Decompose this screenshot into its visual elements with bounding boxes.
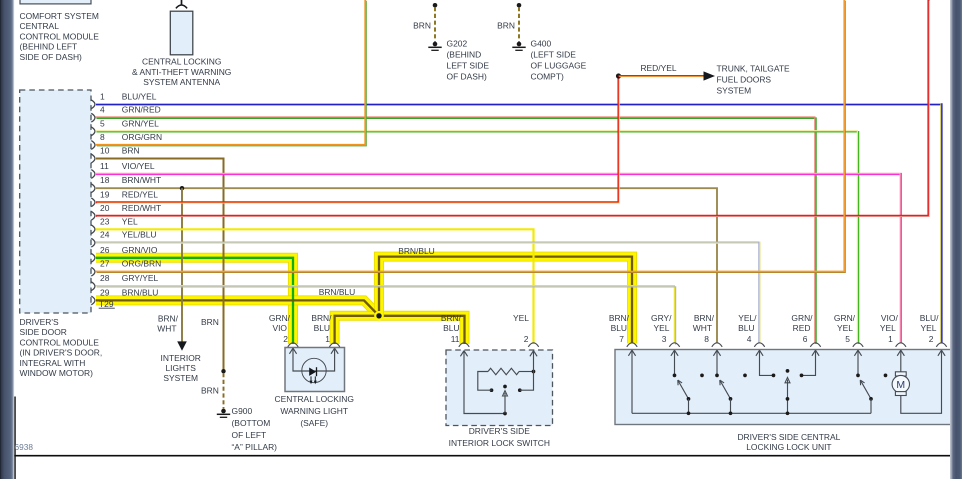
wire BRN dashed lead to G900	[223, 373, 225, 409]
svg-text:SIDE OF DASH): SIDE OF DASH)	[20, 52, 83, 62]
node center switch left contact	[772, 374, 776, 378]
svg-text:YEL: YEL	[921, 323, 937, 333]
motor M lead from pin 1	[900, 350, 902, 372]
pin 20 socket of T29	[91, 211, 95, 220]
svg-text:RED: RED	[793, 323, 811, 333]
svg-text:COMPT): COMPT)	[531, 71, 564, 81]
resistor R (lock switch)	[488, 368, 519, 374]
svg-text:WHT: WHT	[157, 323, 176, 333]
node lock unit switch B contact (pin 8)	[715, 374, 719, 378]
svg-text:M: M	[896, 379, 905, 391]
svg-text:SYSTEM ANTENNA: SYSTEM ANTENNA	[143, 77, 220, 87]
svg-text:YEL: YEL	[513, 313, 529, 323]
wire BRN/BLU pin 29 highlight band (main run with jog)	[96, 300, 465, 344]
wire BRN/BLU pin 29 brown core	[96, 300, 465, 344]
svg-text:BLU: BLU	[738, 323, 754, 333]
svg-text:COMFORT SYSTEM: COMFORT SYSTEM	[20, 11, 99, 21]
svg-text:BRN/BLU: BRN/BLU	[319, 287, 356, 297]
svg-text:CONTROL MODULE: CONTROL MODULE	[20, 337, 100, 347]
lock unit pin 1 connector hook	[896, 343, 906, 347]
wire ORG/BRN pin 27 exits top of page	[96, 0, 845, 272]
svg-text:BRN/: BRN/	[441, 313, 462, 323]
svg-text:WARNING LIGHT: WARNING LIGHT	[280, 406, 348, 416]
svg-text:20: 20	[100, 203, 110, 213]
lock unit pin 6 entry arrow	[812, 350, 816, 356]
svg-text:LIGHTS: LIGHTS	[165, 363, 196, 373]
wire GRN/RED pin 4 to lock unit pin 6	[96, 118, 816, 344]
svg-text:(SAFE): (SAFE)	[300, 418, 328, 428]
node lock unit switch C contact (pin 5)	[856, 374, 860, 378]
driver's side door control module (dashed box)	[20, 90, 91, 313]
svg-text:G900: G900	[232, 406, 253, 416]
svg-text:BRN/: BRN/	[694, 313, 715, 323]
lock unit pin 5 lead	[857, 350, 859, 375]
lock switch pin 2 connector hook	[528, 343, 538, 347]
switch A pivot to bus	[688, 399, 690, 413]
svg-text:6: 6	[803, 334, 808, 344]
svg-text:(BEHIND LEFT: (BEHIND LEFT	[20, 42, 78, 52]
lock unit switch A blade	[678, 380, 689, 399]
svg-text:11: 11	[451, 334, 460, 344]
svg-text:26: 26	[100, 245, 110, 255]
svg-text:BRN: BRN	[497, 20, 515, 30]
lock unit pin 7 entry arrow	[628, 350, 632, 356]
svg-text:LEFT SIDE: LEFT SIDE	[447, 60, 490, 70]
svg-text:23: 23	[100, 216, 110, 226]
pin 29 socket of T29	[91, 296, 95, 305]
svg-text:CENTRAL LOCKING: CENTRAL LOCKING	[142, 57, 221, 67]
svg-text:RED/WHT: RED/WHT	[122, 203, 161, 213]
svg-text:RED/YEL: RED/YEL	[122, 189, 158, 199]
wire left contact to resistor left lead	[478, 372, 492, 391]
node lock switch right contact	[518, 388, 522, 392]
svg-text:WINDOW MOTOR): WINDOW MOTOR)	[20, 368, 94, 378]
warning light pin 2 entry arrow and lead	[289, 348, 293, 354]
lock unit pin 7 connector hook	[627, 343, 637, 347]
lock unit switch B blade	[720, 380, 731, 399]
wire GRY/YEL pin 28 to lock unit pin 3 (yellow/grey pair)	[95, 286, 674, 344]
svg-text:GRY/: GRY/	[651, 313, 672, 323]
svg-text:INTEGRAL WITH: INTEGRAL WITH	[20, 358, 86, 368]
node center switch right contact	[800, 374, 804, 378]
wire ORG/GRN pin 8 exits top of page	[96, 0, 366, 145]
pin 4 socket of T29	[91, 113, 95, 122]
svg-text:4: 4	[100, 105, 105, 115]
svg-text:1: 1	[325, 334, 330, 344]
LED diode triangle and bar	[309, 368, 316, 376]
driver's side interior lock switch box (dashed)	[446, 350, 553, 426]
svg-text:DRIVER'S: DRIVER'S	[20, 317, 59, 327]
svg-text:GRN/VIO: GRN/VIO	[122, 245, 158, 255]
motor M (lock actuator)	[895, 372, 906, 376]
svg-text:YEL: YEL	[837, 323, 853, 333]
svg-text:GRY/YEL: GRY/YEL	[122, 273, 159, 283]
svg-text:6938: 6938	[15, 442, 34, 452]
switch C pivot to bus end	[870, 399, 872, 413]
lock unit pin 3 entry arrow	[671, 350, 675, 356]
lock unit common bus	[632, 412, 871, 414]
svg-text:YEL: YEL	[122, 216, 138, 226]
svg-text:ORG/GRN: ORG/GRN	[122, 132, 162, 142]
svg-text:2: 2	[929, 334, 934, 344]
pin 23 socket of T29	[91, 225, 95, 234]
resistor right lead to pin 2	[519, 371, 534, 373]
lock unit pin 6 connector hook	[810, 343, 820, 347]
pin 24 socket of T29	[91, 238, 95, 247]
pin 11 socket of T29	[91, 170, 95, 179]
node free contact right of pin 8	[743, 374, 747, 378]
svg-text:TRUNK, TAILGATE: TRUNK, TAILGATE	[717, 63, 791, 73]
svg-text:1: 1	[888, 334, 893, 344]
LED emission arrows	[310, 376, 312, 381]
lock unit pin 8 connector hook	[712, 343, 722, 347]
pin 26 socket of T29	[91, 253, 95, 262]
svg-text:BRN: BRN	[122, 146, 140, 156]
svg-text:BRN/BLU: BRN/BLU	[122, 287, 159, 297]
lock unit pin 4 lead to center switch left contact	[760, 350, 774, 375]
svg-text:G400: G400	[531, 38, 552, 48]
svg-text:18: 18	[100, 175, 110, 185]
wire BRN/BLU brown core branch to warning light pin 1	[335, 316, 379, 344]
warning light LED lamp circle	[302, 358, 326, 382]
svg-text:BRN/: BRN/	[311, 313, 332, 323]
wire BRN/BLU highlight band branch to warning light pin 1	[335, 316, 379, 344]
svg-text:2: 2	[283, 334, 288, 344]
lock unit pin 2 entry arrow	[938, 350, 942, 356]
svg-text:BLU: BLU	[611, 323, 627, 333]
node bus junction (center)	[786, 411, 790, 415]
motor return wire to pin 2	[901, 350, 942, 413]
wire BRN pin 10 down to ground G900	[96, 159, 224, 372]
svg-text:ORG/BRN: ORG/BRN	[122, 259, 161, 269]
lock unit pin 8 lead	[716, 350, 718, 375]
svg-text:BRN/: BRN/	[609, 313, 630, 323]
central locking & anti-theft warning system antenna symbol	[181, 0, 183, 5]
node RED/YEL junction	[616, 73, 621, 78]
pin 8 socket of T29	[91, 141, 95, 150]
node bus junction (switch A)	[687, 411, 691, 415]
lock unit pin 8 entry arrow	[713, 350, 717, 356]
central locking warning light box	[285, 348, 345, 392]
svg-text:28: 28	[100, 273, 110, 283]
wire BRN dashed lead to G202	[434, 7, 436, 42]
svg-text:4: 4	[747, 334, 752, 344]
pin 5 socket of T29	[91, 127, 95, 136]
svg-text:(IN DRIVER'S DOOR,: (IN DRIVER'S DOOR,	[20, 348, 103, 358]
wire YEL/BLU pin 24 to lock unit pin 4	[96, 243, 760, 344]
svg-text:3: 3	[662, 334, 667, 344]
svg-text:OF DASH): OF DASH)	[447, 71, 488, 81]
svg-text:CONTROL MODULE: CONTROL MODULE	[20, 31, 100, 41]
node free contact left of pin 8	[700, 374, 704, 378]
lock unit pin 5 entry arrow	[854, 350, 858, 356]
wire YEL pin 23 to interior lock switch pin 2	[96, 229, 534, 344]
node BRN/WHT branch junction	[180, 186, 184, 190]
node lock switch common	[503, 412, 507, 416]
node BRN junction above G900 dashed lead	[221, 369, 225, 373]
svg-text:LOCKING LOCK UNIT: LOCKING LOCK UNIT	[746, 442, 831, 452]
wire GRN/YEL pin 5 to lock unit pin 5	[96, 132, 858, 344]
lock unit pin 7 lead to bus	[631, 350, 633, 413]
lock unit pin 5 connector hook	[853, 343, 863, 347]
svg-text:BLU/YEL: BLU/YEL	[122, 91, 157, 101]
svg-text:DRIVER'S SIDE: DRIVER'S SIDE	[469, 426, 531, 436]
svg-text:(BOTTOM: (BOTTOM	[232, 418, 271, 428]
wire right contact to pin 2 lead	[520, 351, 534, 391]
wire BRN/WHT branch down to interior lights system	[181, 188, 183, 342]
svg-text:BLU/: BLU/	[920, 313, 939, 323]
svg-text:YEL: YEL	[654, 323, 670, 333]
interior lights system off-page arrow	[177, 341, 187, 350]
svg-text:BRN: BRN	[413, 20, 431, 30]
svg-text:GRN/: GRN/	[791, 313, 813, 323]
svg-text:FUEL DOORS: FUEL DOORS	[717, 74, 772, 84]
ground G400 symbol	[517, 42, 522, 47]
node center switch upper contact	[786, 369, 790, 373]
node switch C pivot	[869, 397, 873, 401]
wire RED/WHT pin 20 exits top of page	[96, 0, 929, 216]
svg-text:29: 29	[100, 287, 110, 297]
svg-text:BRN/WHT: BRN/WHT	[122, 175, 161, 185]
ground G900 symbol	[221, 409, 226, 414]
svg-text:BLU: BLU	[314, 323, 330, 333]
warning light pin 1 entry arrow	[331, 348, 335, 354]
svg-text:GRN/RED: GRN/RED	[122, 105, 161, 115]
svg-text:24: 24	[100, 230, 110, 240]
warning light pin 2 connector hook	[288, 343, 298, 347]
svg-text:RED/YEL: RED/YEL	[640, 63, 676, 73]
svg-text:VIO/YEL: VIO/YEL	[122, 161, 155, 171]
node switch B pivot	[729, 397, 733, 401]
node center blade mid junction	[786, 397, 790, 401]
lock unit pin 3 connector hook	[669, 343, 679, 347]
node bus junction (switch B)	[729, 411, 733, 415]
lock switch pin 11 connector hook	[459, 343, 469, 347]
svg-text:GRN/: GRN/	[834, 313, 856, 323]
svg-text:8: 8	[704, 334, 709, 344]
wire VIO/YEL pin 11 to lock unit pin 1	[96, 174, 901, 343]
node BRN top junction at G400	[517, 3, 522, 8]
lock unit center switch blade (arrow up)	[787, 380, 789, 414]
svg-text:VIO: VIO	[272, 323, 287, 333]
lock unit pin 3 lead	[674, 350, 676, 375]
svg-text:27: 27	[100, 259, 110, 269]
svg-text:OF LEFT: OF LEFT	[232, 430, 267, 440]
pin 28 socket of T29	[91, 282, 95, 291]
wire RED/YEL off-page arrow to trunk tailgate fuel doors system	[619, 75, 704, 77]
svg-text:GRN/: GRN/	[269, 313, 291, 323]
svg-text:CENTRAL LOCKING: CENTRAL LOCKING	[275, 394, 354, 404]
lock switch blade (center position, arrow up)	[504, 393, 506, 414]
svg-text:OF LUGGAGE: OF LUGGAGE	[531, 60, 587, 70]
switch B pivot to bus	[730, 399, 732, 413]
svg-text:YEL/BLU: YEL/BLU	[122, 230, 157, 240]
svg-text:5: 5	[845, 334, 850, 344]
node lock switch left contact	[490, 388, 494, 392]
lock switch pin 2 entry arrow	[530, 351, 534, 357]
svg-text:19: 19	[100, 189, 110, 199]
svg-text:SYSTEM: SYSTEM	[717, 85, 752, 95]
svg-text:11: 11	[100, 161, 109, 171]
node lock unit switch A contact (pin 3)	[673, 374, 677, 378]
svg-text:BRN/BLU: BRN/BLU	[398, 246, 435, 256]
svg-text:2: 2	[524, 334, 529, 344]
svg-text:WHT: WHT	[693, 323, 712, 333]
svg-text:7: 7	[619, 334, 624, 344]
lock unit switch C blade	[860, 380, 871, 399]
pin 10 socket of T29	[91, 154, 95, 163]
pin 1 socket of T29	[91, 100, 95, 109]
driver's side central locking lock unit box	[615, 350, 951, 425]
svg-text:(BEHIND: (BEHIND	[447, 49, 482, 59]
wire BRN/BLU highlight band riser and upper branch to lock unit pin 7	[379, 257, 632, 344]
lock unit pin 2 connector hook	[936, 343, 946, 347]
svg-text:CENTRAL: CENTRAL	[20, 21, 60, 31]
svg-text:BRN: BRN	[201, 386, 219, 396]
node switch A pivot	[687, 397, 691, 401]
svg-text:BRN/: BRN/	[158, 313, 179, 323]
svg-text:INTERIOR: INTERIOR	[161, 353, 201, 363]
wire GRN/VIO pin 26 highlight band	[96, 258, 293, 344]
svg-text:& ANTI-THEFT WARNING: & ANTI-THEFT WARNING	[132, 67, 231, 77]
svg-text:YEL: YEL	[880, 323, 896, 333]
svg-text:VIO/: VIO/	[881, 313, 899, 323]
wire RED/YEL pin 19 up to trunk/tailgate branch	[96, 76, 619, 202]
node lock switch center contact	[503, 385, 507, 389]
svg-text:INTERIOR LOCK SWITCH: INTERIOR LOCK SWITCH	[449, 438, 550, 448]
ground G202 symbol	[433, 42, 438, 47]
wire BLU/YEL pin 1 to lock unit pin 2	[96, 104, 942, 343]
wire BRN/WHT pin 18 to lock unit pin 8	[96, 188, 717, 343]
lock switch pin 11 entry arrow and lead to common	[460, 351, 464, 357]
wire GRN/VIO pin 26 green core	[96, 258, 293, 344]
svg-text:SIDE DOOR: SIDE DOOR	[20, 327, 67, 337]
lock unit pin 4 entry arrow	[756, 350, 760, 356]
svg-text:8: 8	[100, 132, 105, 142]
pin 18 socket of T29	[91, 184, 95, 193]
svg-text:T29: T29	[99, 299, 114, 309]
node BRN/BLU main junction	[375, 312, 383, 320]
warning light pin 1 connector hook	[329, 343, 339, 347]
svg-text:SYSTEM: SYSTEM	[163, 373, 198, 383]
lock unit pin 1 entry arrow	[897, 350, 901, 356]
svg-text:(LEFT SIDE: (LEFT SIDE	[531, 49, 577, 59]
svg-text:YEL/: YEL/	[738, 313, 757, 323]
svg-text:G202: G202	[447, 38, 468, 48]
svg-text:DRIVER'S SIDE CENTRAL: DRIVER'S SIDE CENTRAL	[737, 432, 840, 442]
svg-text:10: 10	[100, 146, 110, 156]
pin 19 socket of T29	[91, 198, 95, 207]
wire BRN dashed lead to G400	[518, 7, 520, 42]
svg-text:1: 1	[100, 91, 105, 101]
comfort system central control module (box, partially offscreen)	[20, 0, 91, 4]
svg-text:5: 5	[100, 118, 105, 128]
svg-text:“A” PILLAR): “A” PILLAR)	[232, 442, 278, 452]
svg-text:BRN: BRN	[201, 317, 219, 327]
wire BRN/BLU brown core riser to lock unit pin 7	[379, 257, 632, 344]
svg-text:BLU: BLU	[443, 323, 459, 333]
lock unit pin 6 lead to center switch right contact	[802, 350, 816, 375]
node resistor/pin2 junction	[532, 370, 536, 374]
node BRN top junction at G202	[433, 3, 438, 8]
node free contact left of motor	[884, 374, 888, 378]
pin 27 socket of T29	[91, 267, 95, 276]
lock unit pin 4 connector hook	[754, 343, 764, 347]
svg-text:GRN/YEL: GRN/YEL	[122, 118, 159, 128]
